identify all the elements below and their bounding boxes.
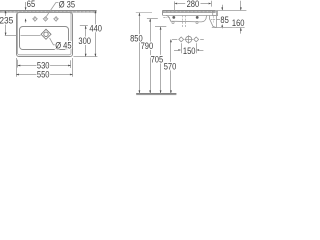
svg-text:300: 300 bbox=[78, 35, 91, 46]
basin rim lower line (side view) bbox=[163, 15, 216, 17]
wall drain outlet (circle with cross) bbox=[185, 35, 193, 43]
dimension 705 bbox=[151, 27, 164, 94]
svg-text:Ø 45: Ø 45 bbox=[55, 40, 72, 51]
dimension 530 bbox=[17, 60, 71, 71]
svg-text:150: 150 bbox=[183, 45, 196, 56]
hidden centerline dash-dot (side view) bbox=[163, 17, 170, 19]
dimension 65 (wall to tap holes) bbox=[25, 0, 36, 23]
drain symbol (diamond + circle) bbox=[41, 29, 51, 39]
svg-text:570: 570 bbox=[164, 61, 177, 72]
dimension 550 bbox=[16, 69, 73, 80]
mounting bracket bbox=[213, 11, 218, 16]
dimension 440 (wall to front edge) bbox=[89, 10, 102, 56]
svg-text:Ø 35: Ø 35 bbox=[59, 0, 76, 10]
dimension 160 (top to rear bottom) bbox=[232, 1, 245, 34]
fixing centerline dash right bbox=[200, 39, 204, 41]
svg-text:280: 280 bbox=[187, 0, 200, 9]
tap hole middle bbox=[43, 16, 49, 22]
top rim hatch band (side view) bbox=[163, 11, 216, 13]
fixing boss knob rear (side view) bbox=[196, 16, 199, 19]
dimension 235 (wall to drain center) bbox=[0, 10, 13, 35]
svg-text:160: 160 bbox=[232, 18, 245, 29]
screw hole circle front (side view) bbox=[172, 21, 174, 23]
basin outer rim (top view) bbox=[17, 13, 73, 57]
extension line for 850 bbox=[136, 12, 152, 14]
wall fixing point left (diamond) bbox=[179, 37, 184, 42]
wall hatch band (top view) bbox=[0, 11, 97, 13]
svg-text:790: 790 bbox=[141, 41, 154, 52]
basin inner rim line (top view) bbox=[18, 13, 72, 55]
top surface extension line to the right bbox=[216, 10, 246, 12]
dimension 300 (front edge to bowl top) bbox=[78, 26, 91, 57]
svg-text:85: 85 bbox=[220, 15, 229, 26]
svg-text:235: 235 bbox=[0, 15, 13, 25]
hidden tap hole (dashed, side view) bbox=[211, 16, 216, 22]
drain centerline bbox=[5, 35, 41, 37]
bottom extension lines (left view) bbox=[17, 58, 73, 77]
wall face line (side view) bbox=[216, 11, 218, 28]
rear underside block (side view) bbox=[210, 15, 217, 27]
dimension 570 (floor to drain outlet) bbox=[164, 39, 177, 93]
svg-text:65: 65 bbox=[27, 0, 36, 9]
bowl underside profile (side view) bbox=[166, 15, 206, 22]
dimension 150 (between fixing points) bbox=[174, 43, 203, 56]
dimension 790 bbox=[141, 19, 154, 94]
extension line for 790 bbox=[147, 18, 158, 20]
label Ø 35 with leader to middle tap hole bbox=[46, 0, 75, 17]
tap hole left bbox=[32, 16, 38, 22]
extension line for 705 bbox=[155, 26, 166, 28]
front edge extension line bbox=[73, 56, 97, 58]
extension dash for 570 / fixing centerline bbox=[172, 39, 177, 41]
extension line at bowl top for dim 300 bbox=[80, 25, 88, 27]
dimension 850 (floor to rim) bbox=[130, 13, 143, 94]
bowl outline (top view) bbox=[20, 27, 69, 50]
svg-text:440: 440 bbox=[89, 23, 102, 34]
dimension 280 bbox=[174, 0, 211, 11]
label Ø 45 with leader to drain bbox=[50, 38, 72, 51]
hidden drain pipe (dashed) bbox=[183, 15, 186, 27]
rear bottom extension line bbox=[212, 27, 245, 29]
floor line bbox=[136, 94, 176, 96]
screw hole circle rear (side view) bbox=[196, 21, 198, 23]
wall fixing point right (diamond) bbox=[194, 37, 199, 42]
tap hole right bbox=[53, 16, 59, 22]
fixing boss knob front (side view) bbox=[172, 16, 175, 19]
svg-text:550: 550 bbox=[37, 69, 50, 80]
svg-text:705: 705 bbox=[151, 54, 164, 65]
dimension 85 (top to tap hole) bbox=[216, 5, 229, 29]
basin profile front edge (side view) bbox=[162, 10, 164, 15]
